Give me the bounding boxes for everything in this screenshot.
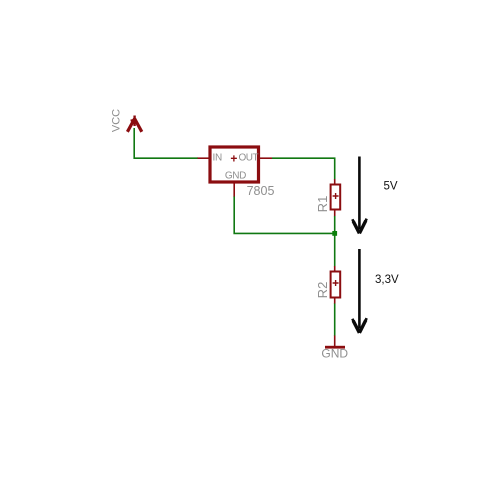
- svg-text:GND: GND: [321, 347, 348, 361]
- resistor R2: [331, 272, 341, 298]
- wire VCC to regulator input: [134, 128, 198, 158]
- wire junction to regulator GND pin: [234, 196, 333, 233]
- svg-text:GND: GND: [225, 171, 246, 182]
- pin stub ground: [334, 336, 336, 348]
- svg-text:3,3V: 3,3V: [375, 274, 399, 286]
- supply symbol VCC: [127, 116, 141, 132]
- svg-text:VCC: VCC: [111, 109, 123, 132]
- wire junction to R2: [334, 236, 336, 267]
- pin stub regulator GND: [233, 184, 235, 197]
- ground symbol: [325, 346, 345, 349]
- svg-text:R2: R2: [315, 282, 330, 299]
- junction node: [332, 231, 337, 236]
- svg-text:R1: R1: [315, 196, 330, 213]
- svg-text:7805: 7805: [247, 184, 275, 198]
- voltage regulator U1 7805: [210, 147, 259, 182]
- pin stub R1 bottom: [334, 210, 336, 217]
- wire OUT to R1: [272, 158, 335, 179]
- annotation arrow 5V: [352, 157, 366, 234]
- resistor R1: [331, 185, 341, 210]
- wire R1 to junction: [334, 216, 336, 232]
- pin stub R2 bottom: [334, 298, 336, 305]
- svg-text:5V: 5V: [384, 181, 398, 193]
- pin stub IN: [198, 157, 210, 159]
- svg-text:IN: IN: [212, 152, 221, 163]
- annotation arrow 3,3V: [352, 249, 366, 333]
- svg-text:+: +: [230, 151, 237, 165]
- wire R2 to ground: [334, 304, 336, 337]
- pin stub R1 top: [334, 179, 336, 185]
- pin stub OUT: [260, 157, 272, 159]
- pin stub R2 top: [334, 266, 336, 272]
- svg-text:OUT: OUT: [238, 152, 258, 163]
